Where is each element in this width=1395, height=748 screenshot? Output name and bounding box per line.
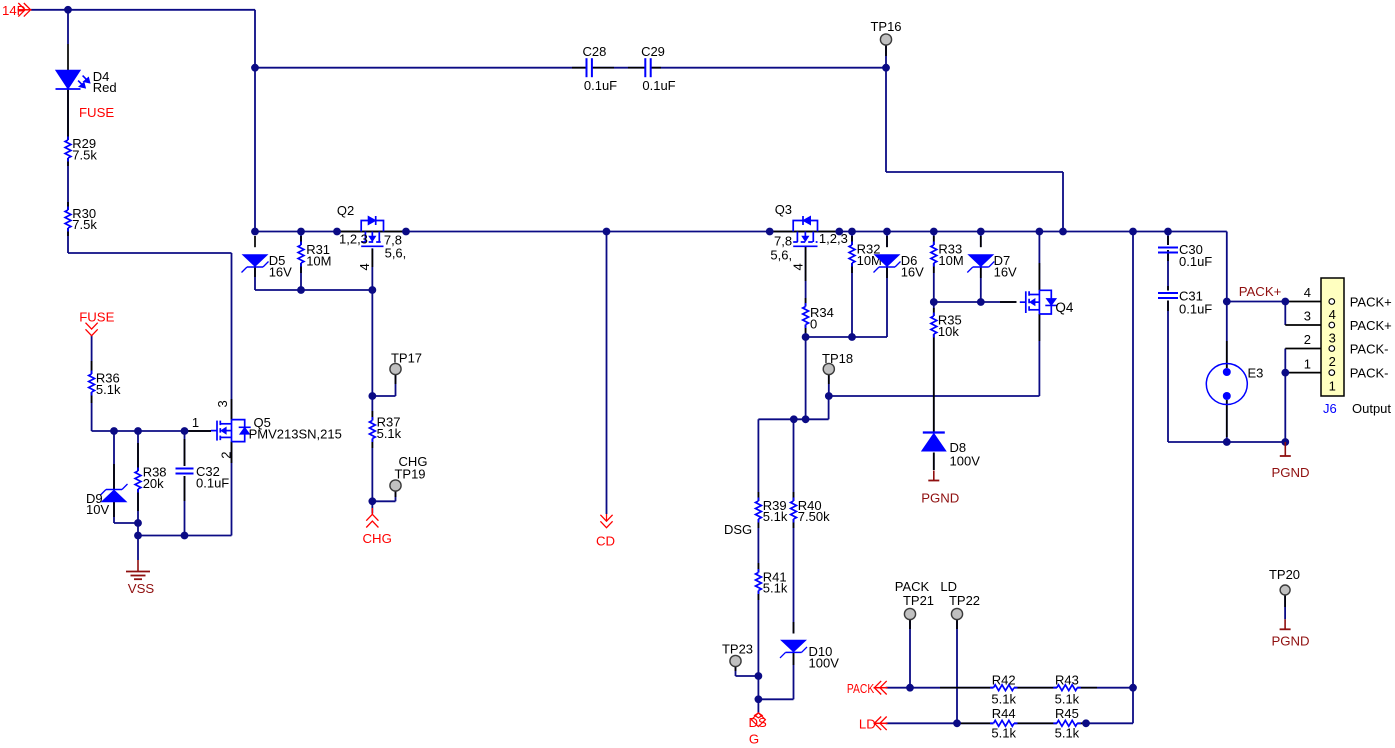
svg-text:0: 0 bbox=[810, 316, 817, 331]
svg-text:LD: LD bbox=[859, 717, 876, 732]
svg-text:PMV213SN,215: PMV213SN,215 bbox=[249, 426, 342, 441]
svg-text:PACK-: PACK- bbox=[1350, 366, 1389, 381]
svg-text:G: G bbox=[749, 731, 759, 746]
svg-text:5.1k: 5.1k bbox=[377, 426, 402, 441]
svg-text:LD: LD bbox=[940, 579, 957, 594]
svg-text:TP17: TP17 bbox=[391, 351, 422, 366]
svg-text:PACK+: PACK+ bbox=[1239, 284, 1282, 299]
svg-text:7.5k: 7.5k bbox=[72, 217, 97, 232]
svg-text:4: 4 bbox=[357, 263, 372, 270]
svg-text:PACK+: PACK+ bbox=[1350, 318, 1392, 333]
svg-text:4: 4 bbox=[791, 263, 806, 270]
svg-text:TP20: TP20 bbox=[1269, 567, 1300, 582]
svg-text:7.5k: 7.5k bbox=[72, 147, 97, 162]
svg-text:TP19: TP19 bbox=[394, 467, 425, 482]
svg-text:C29: C29 bbox=[641, 44, 665, 59]
svg-text:20k: 20k bbox=[143, 476, 164, 491]
svg-text:FUSE: FUSE bbox=[79, 105, 114, 120]
svg-text:PGND: PGND bbox=[1271, 634, 1309, 649]
svg-text:4: 4 bbox=[1329, 307, 1336, 322]
svg-text:TP23: TP23 bbox=[722, 642, 753, 657]
svg-text:5.1k: 5.1k bbox=[763, 581, 788, 596]
svg-text:5.1k: 5.1k bbox=[991, 725, 1016, 740]
svg-text:Output: Output bbox=[1352, 401, 1391, 416]
svg-text:5.1k: 5.1k bbox=[763, 509, 788, 524]
svg-text:Q4: Q4 bbox=[1055, 300, 1074, 315]
svg-text:1,2,3: 1,2,3 bbox=[339, 232, 368, 247]
svg-text:3: 3 bbox=[215, 400, 230, 407]
svg-text:0.1uF: 0.1uF bbox=[196, 475, 229, 490]
svg-text:0.1uF: 0.1uF bbox=[642, 78, 675, 93]
svg-text:5.1k: 5.1k bbox=[991, 691, 1016, 706]
svg-text:Q2: Q2 bbox=[337, 203, 354, 218]
svg-text:PACK-: PACK- bbox=[1350, 342, 1389, 357]
svg-text:0.1uF: 0.1uF bbox=[1179, 254, 1212, 269]
svg-text:R42: R42 bbox=[992, 672, 1016, 687]
svg-text:1,2,3: 1,2,3 bbox=[819, 231, 848, 246]
svg-text:5.1k: 5.1k bbox=[96, 382, 121, 397]
svg-text:C28: C28 bbox=[582, 44, 606, 59]
svg-text:PACK: PACK bbox=[895, 579, 930, 594]
svg-text:E3: E3 bbox=[1248, 366, 1264, 381]
svg-text:R45: R45 bbox=[1055, 706, 1079, 721]
svg-text:R44: R44 bbox=[992, 706, 1016, 721]
svg-text:Q3: Q3 bbox=[775, 202, 792, 217]
svg-text:0.1uF: 0.1uF bbox=[584, 78, 617, 93]
svg-text:TP22: TP22 bbox=[949, 593, 980, 608]
svg-text:16V: 16V bbox=[269, 264, 292, 279]
svg-text:7.50k: 7.50k bbox=[798, 509, 830, 524]
svg-text:5.1k: 5.1k bbox=[1055, 691, 1080, 706]
svg-text:1: 1 bbox=[1304, 356, 1311, 371]
svg-text:PACK+: PACK+ bbox=[1350, 295, 1392, 310]
svg-text:R43: R43 bbox=[1055, 672, 1079, 687]
svg-text:CD: CD bbox=[596, 534, 615, 549]
svg-text:1: 1 bbox=[1329, 378, 1336, 393]
svg-text:TP21: TP21 bbox=[903, 593, 934, 608]
svg-text:TP16: TP16 bbox=[870, 19, 901, 34]
svg-text:Red: Red bbox=[93, 80, 117, 95]
svg-text:DS: DS bbox=[749, 715, 768, 730]
svg-text:5,6,: 5,6, bbox=[770, 248, 792, 263]
svg-text:7,8: 7,8 bbox=[774, 233, 792, 248]
svg-text:TP18: TP18 bbox=[822, 351, 853, 366]
svg-text:PGND: PGND bbox=[1271, 465, 1309, 480]
svg-text:VSS: VSS bbox=[128, 581, 155, 596]
svg-text:10M: 10M bbox=[938, 253, 963, 268]
svg-text:5.1k: 5.1k bbox=[1055, 725, 1080, 740]
svg-text:4: 4 bbox=[1304, 285, 1311, 300]
svg-text:10M: 10M bbox=[306, 253, 331, 268]
svg-text:FUSE: FUSE bbox=[79, 310, 114, 325]
svg-text:10V: 10V bbox=[86, 502, 109, 517]
svg-text:1: 1 bbox=[192, 415, 199, 430]
svg-text:2: 2 bbox=[1329, 354, 1336, 369]
svg-text:2: 2 bbox=[218, 452, 233, 459]
svg-text:PACK: PACK bbox=[847, 681, 874, 696]
svg-text:DSG: DSG bbox=[724, 522, 752, 537]
svg-text:CHG: CHG bbox=[363, 531, 392, 546]
svg-text:16V: 16V bbox=[901, 264, 924, 279]
svg-text:100V: 100V bbox=[950, 453, 981, 468]
svg-text:2: 2 bbox=[1304, 332, 1311, 347]
svg-text:J6: J6 bbox=[1323, 401, 1337, 416]
svg-text:3: 3 bbox=[1304, 309, 1311, 324]
svg-text:3: 3 bbox=[1329, 331, 1336, 346]
svg-text:5,6,: 5,6, bbox=[385, 245, 407, 260]
svg-text:0.1uF: 0.1uF bbox=[1179, 302, 1212, 317]
svg-text:10k: 10k bbox=[938, 324, 959, 339]
svg-text:PGND: PGND bbox=[921, 491, 959, 506]
svg-text:16V: 16V bbox=[994, 264, 1017, 279]
svg-text:100V: 100V bbox=[809, 655, 840, 670]
